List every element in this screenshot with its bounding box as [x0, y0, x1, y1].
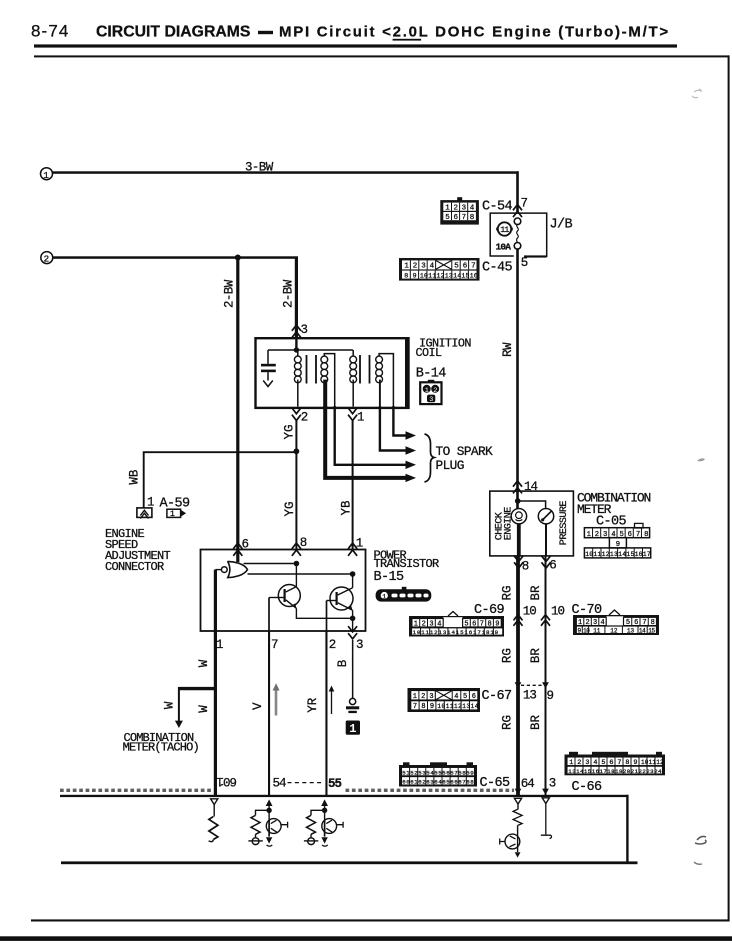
svg-text:1234: 1234	[445, 205, 478, 213]
svg-text:1: 1	[43, 170, 49, 181]
pin 6 chevrons	[233, 543, 242, 549]
svg-text:1: 1	[425, 387, 429, 395]
right page border	[728, 55, 730, 921]
brace to spark plug	[425, 434, 435, 482]
svg-text:COIL: COIL	[416, 346, 442, 360]
shield dashed line mid	[346, 789, 515, 792]
svg-text:C-45: C-45	[482, 261, 513, 276]
wire YB	[352, 419, 354, 549]
wire V (pin7) to ECU	[268, 631, 270, 796]
tacho branch wire	[179, 687, 215, 690]
svg-text:YR: YR	[306, 697, 320, 713]
svg-text:W: W	[197, 659, 211, 667]
bottom page rule	[31, 919, 730, 921]
svg-text:1011121314: 1011121314	[437, 703, 479, 710]
svg-text:131415161718192021222324: 131415161718192021222324	[568, 768, 662, 775]
title dash	[258, 31, 273, 34]
driver gate U1	[221, 561, 247, 577]
wire 2-BW right vertical	[295, 258, 298, 339]
ECU node V	[268, 806, 270, 820]
svg-text:YG: YG	[283, 424, 297, 439]
T1 core bars	[307, 355, 317, 384]
ECU pin terminal YR (filled up arrow)	[321, 799, 328, 806]
wire RW inside meter	[516, 491, 519, 509]
T1 secondary top lead	[324, 354, 334, 406]
svg-text:7: 7	[521, 197, 529, 211]
connector C-67	[408, 688, 481, 712]
svg-text:3: 3	[549, 777, 557, 791]
svg-text:BR: BR	[529, 648, 543, 664]
svg-text:8-74: 8-74	[31, 22, 69, 41]
connector B-14 icon	[420, 380, 441, 404]
C-67 junction arrow left	[515, 682, 522, 688]
svg-text:1011121314151617: 1011121314151617	[585, 551, 651, 558]
svg-text:YG: YG	[283, 501, 297, 516]
svg-text:PLUG: PLUG	[436, 458, 464, 473]
svg-text:C-54: C-54	[482, 200, 513, 215]
ECU internal stub 3	[545, 804, 547, 835]
svg-text:13: 13	[523, 689, 537, 703]
svg-text:W: W	[197, 705, 211, 713]
wire W (pin1) to ECU	[214, 631, 217, 796]
scan smudge bottom right 2	[694, 862, 702, 864]
svg-text:WB: WB	[128, 469, 142, 485]
svg-text:YB: YB	[340, 500, 354, 516]
ECU output transistor Q3	[266, 819, 288, 847]
Q1 emitter wire	[296, 608, 352, 618]
svg-text:6: 6	[549, 559, 557, 573]
bulb output wire (thick RG)	[517, 524, 521, 556]
connector C-69	[409, 612, 504, 637]
svg-text:1: 1	[382, 593, 386, 600]
svg-text:3: 3	[301, 323, 309, 337]
svg-text:601: 601	[217, 774, 237, 788]
junction dot	[235, 255, 241, 261]
ECU output transistor Q5	[500, 834, 521, 858]
gate output to Q2 base node	[248, 573, 353, 575]
svg-text:5678: 5678	[445, 214, 478, 222]
svg-text:B: B	[336, 659, 350, 667]
T2 secondary top lead	[379, 354, 393, 406]
svg-text:RW: RW	[501, 342, 515, 357]
spark plug lead B	[380, 406, 406, 451]
tacho arrow	[175, 721, 183, 728]
header rule thin	[34, 55, 730, 57]
svg-text:10111213141516171819: 10111213141516171819	[413, 629, 499, 636]
wire YG	[295, 419, 297, 549]
svg-text:9: 9	[547, 689, 555, 703]
svg-text:54: 54	[273, 776, 287, 790]
svg-text:567: 567	[454, 263, 479, 271]
transformer T2 secondary coil	[376, 356, 383, 383]
wire node3 stub	[295, 338, 297, 350]
transformer T1 secondary coil	[321, 356, 328, 383]
combination meter box	[490, 491, 574, 556]
svg-text:METER(TACHO): METER(TACHO)	[123, 741, 199, 755]
svg-text:1: 1	[147, 496, 155, 510]
scan smudge mid right	[697, 458, 705, 461]
gate input wire (thick) to pin 1	[215, 569, 221, 571]
wire WB horizontal	[144, 452, 296, 508]
wire 3-BW horizontal	[53, 171, 519, 174]
connector C-65	[399, 762, 477, 786]
svg-text:RG: RG	[501, 648, 515, 663]
svg-text:3-BW: 3-BW	[245, 160, 274, 174]
ground (case) at R3	[304, 838, 318, 846]
coil pin 1 chevrons	[348, 408, 357, 421]
svg-text:789: 789	[413, 703, 439, 711]
pin 3 chevrons	[292, 325, 301, 338]
svg-text:BR: BR	[529, 585, 543, 601]
coil pin 2 chevrons	[292, 408, 301, 421]
ECU internal resistor R2	[256, 810, 270, 815]
svg-text:V: V	[251, 702, 265, 710]
svg-text:13: 13	[627, 628, 635, 635]
svg-text:W: W	[162, 701, 176, 709]
Q2 collector wire	[352, 574, 354, 588]
J/B box	[490, 213, 547, 256]
svg-text:10A: 10A	[496, 242, 512, 253]
svg-text:123: 123	[413, 693, 438, 701]
svg-text:10111213141516: 10111213141516	[420, 272, 478, 279]
svg-text:456: 456	[454, 693, 480, 701]
junction dot	[515, 498, 521, 504]
ECU pin terminal W (open)	[211, 799, 218, 805]
footer thick rule	[0, 936, 732, 941]
transistor Q1	[269, 585, 300, 609]
svg-text:J/B: J/B	[550, 218, 573, 233]
svg-text:11: 11	[593, 628, 601, 635]
scan smudge bottom right 1	[695, 836, 706, 844]
ground (case) at R2	[248, 838, 262, 846]
ECU internal resistor R1	[213, 805, 215, 817]
connector B-15 icon	[376, 587, 432, 602]
node 1 circled	[41, 168, 53, 180]
ignition coil box B-14	[256, 338, 409, 408]
svg-text:PRESSURE: PRESSURE	[559, 501, 570, 546]
svg-text:B-14: B-14	[416, 366, 447, 381]
ECU pin terminal 3 (open)	[542, 798, 549, 804]
svg-text:606162636465666768: 606162636465666768	[402, 779, 474, 786]
svg-text:MPI Circuit <2.0L DOHC Engine: MPI Circuit <2.0L DOHC Engine (Turbo)-M/…	[279, 24, 670, 41]
pin 6 chevrons	[542, 556, 551, 562]
check engine bulb L1	[511, 509, 526, 524]
svg-text:1: 1	[357, 411, 365, 425]
header rule thick	[34, 44, 677, 47]
svg-text:2: 2	[301, 411, 309, 425]
C-67 dashed link	[521, 684, 542, 686]
transformer T2 primary coil	[350, 356, 357, 383]
connector A-59 terminal box	[137, 508, 152, 519]
svg-text:2: 2	[44, 254, 50, 265]
fuse 11 10A	[496, 218, 521, 253]
Q2 emitter wire + node	[352, 610, 354, 631]
node 2 circled	[41, 252, 53, 264]
transistor Q2	[327, 587, 354, 610]
pin 14 chevrons	[513, 481, 522, 487]
svg-text:BR: BR	[529, 714, 543, 730]
svg-text:C-69: C-69	[474, 603, 505, 618]
svg-text:515253545556575859: 515253545556575859	[402, 769, 474, 776]
top bus wire inside coil box	[268, 349, 353, 351]
power transistor box	[201, 550, 366, 632]
direction arrow on V wire (gray)	[273, 683, 280, 715]
A-59 mate icon	[167, 509, 186, 519]
connector C-45	[399, 258, 480, 281]
svg-text:RG: RG	[501, 715, 515, 730]
ECU node YR	[324, 806, 326, 820]
svg-text:CONNECTOR: CONNECTOR	[105, 560, 164, 574]
ground marker box 1	[346, 721, 360, 735]
svg-text:C-67: C-67	[482, 689, 513, 704]
ECU box top edge	[60, 795, 629, 797]
gauge output wire	[545, 524, 547, 556]
junction dot node 3	[294, 347, 299, 352]
T2 secondary bottom lead	[379, 380, 381, 406]
spark plug lead D thick	[325, 406, 406, 478]
pin 1 chevrons	[348, 543, 357, 549]
direction arrow on YR wire	[329, 686, 335, 715]
svg-text:1: 1	[356, 537, 364, 551]
ECU pin terminal V (filled up arrow)	[266, 799, 273, 806]
wire RW below fuse	[516, 249, 519, 492]
svg-text:5: 5	[521, 256, 529, 270]
svg-text:2-BW: 2-BW	[282, 279, 296, 308]
svg-text:1: 1	[216, 638, 224, 652]
svg-text:12: 12	[610, 628, 618, 635]
Q2 base riser pin2	[326, 601, 328, 632]
svg-text:3: 3	[356, 638, 364, 652]
svg-text:B-15: B-15	[374, 570, 405, 585]
C-69 link chevrons	[514, 615, 523, 621]
svg-text:10: 10	[523, 605, 537, 619]
svg-text:1: 1	[349, 722, 356, 736]
svg-text:8: 8	[522, 559, 530, 573]
svg-text:55: 55	[328, 777, 342, 791]
C-67 junction arrow right	[542, 682, 549, 688]
junction dot A-59 tap	[294, 448, 300, 454]
wire to pressure gauge	[518, 501, 546, 509]
connector C-54	[440, 197, 479, 224]
wire pin6 into gate (thick)	[236, 551, 239, 563]
underline under 2.0	[393, 39, 422, 41]
svg-text:2: 2	[433, 387, 437, 395]
svg-text:CIRCUIT DIAGRAMS: CIRCUIT DIAGRAMS	[96, 24, 250, 41]
svg-text:64: 64	[521, 777, 535, 791]
pin 3 chevrons	[348, 626, 357, 632]
svg-text:10: 10	[583, 628, 590, 635]
ground G1	[346, 698, 359, 713]
ECU internal resistor R4	[517, 804, 519, 809]
pin 7 chevrons into J/B	[513, 205, 522, 218]
svg-text:89: 89	[404, 272, 421, 279]
svg-text:7: 7	[271, 638, 279, 652]
arrow into ECU on 3 wire	[542, 789, 549, 795]
svg-text:10: 10	[551, 605, 565, 619]
Q1 collector wire	[295, 564, 297, 587]
connector C-66	[565, 752, 666, 776]
wire from node 2	[53, 256, 298, 259]
svg-text:2: 2	[329, 638, 337, 652]
svg-text:TO SPARK: TO SPARK	[436, 444, 494, 459]
ECU box right edge	[626, 795, 628, 864]
wire RW vertical (from 3-BW corner down)	[516, 171, 519, 213]
shield dashed line left	[60, 789, 211, 792]
svg-text:2-BW: 2-BW	[223, 279, 237, 308]
svg-text:1: 1	[170, 510, 175, 519]
spark plug lead A	[393, 406, 405, 436]
svg-text:101112: 101112	[641, 759, 664, 766]
spark plug lead C	[335, 406, 406, 465]
scan smudge top right	[692, 89, 701, 98]
pin 8 chevrons	[514, 556, 523, 562]
svg-text:ENGINE: ENGINE	[503, 507, 514, 541]
svg-text:14: 14	[639, 628, 646, 635]
T2 core bars	[360, 355, 370, 384]
svg-text:RG: RG	[501, 585, 515, 600]
wire RG (thick)	[516, 556, 520, 796]
capacitor C (noise filter)	[261, 350, 276, 387]
svg-text:9: 9	[578, 628, 582, 635]
svg-text:3: 3	[429, 396, 433, 404]
arrow into ECU on 64 wire	[515, 789, 522, 795]
connector C-70	[573, 610, 659, 635]
ECU internal resistor R3	[311, 810, 325, 815]
Q1 base riser pin7	[268, 598, 270, 632]
wire BR	[545, 556, 547, 796]
T1 secondary bottom lead (thick)	[323, 380, 327, 408]
wire B (pin3) to ground	[352, 640, 354, 699]
ECU output transistor Q4	[321, 819, 343, 847]
oil pressure gauge M1	[538, 509, 553, 524]
wire 2-BW left vertical	[236, 258, 239, 551]
gate output to Q1 base node	[244, 563, 297, 565]
svg-text:11: 11	[500, 225, 509, 235]
svg-text:C-66: C-66	[572, 780, 603, 795]
ECU pin terminal 64 (open)	[514, 798, 521, 804]
svg-text:15: 15	[648, 628, 655, 635]
dashed link 54	[288, 782, 322, 784]
svg-text:8: 8	[300, 536, 308, 550]
wire YR (pin2) to ECU	[325, 631, 327, 796]
transformer T1 primary coil	[294, 356, 301, 383]
pin 8 chevrons	[292, 543, 301, 549]
connector C-05	[584, 523, 652, 558]
ECU box bottom edge	[61, 861, 638, 864]
C-70 link chevrons	[541, 615, 550, 621]
svg-text:1234: 1234	[404, 263, 438, 271]
